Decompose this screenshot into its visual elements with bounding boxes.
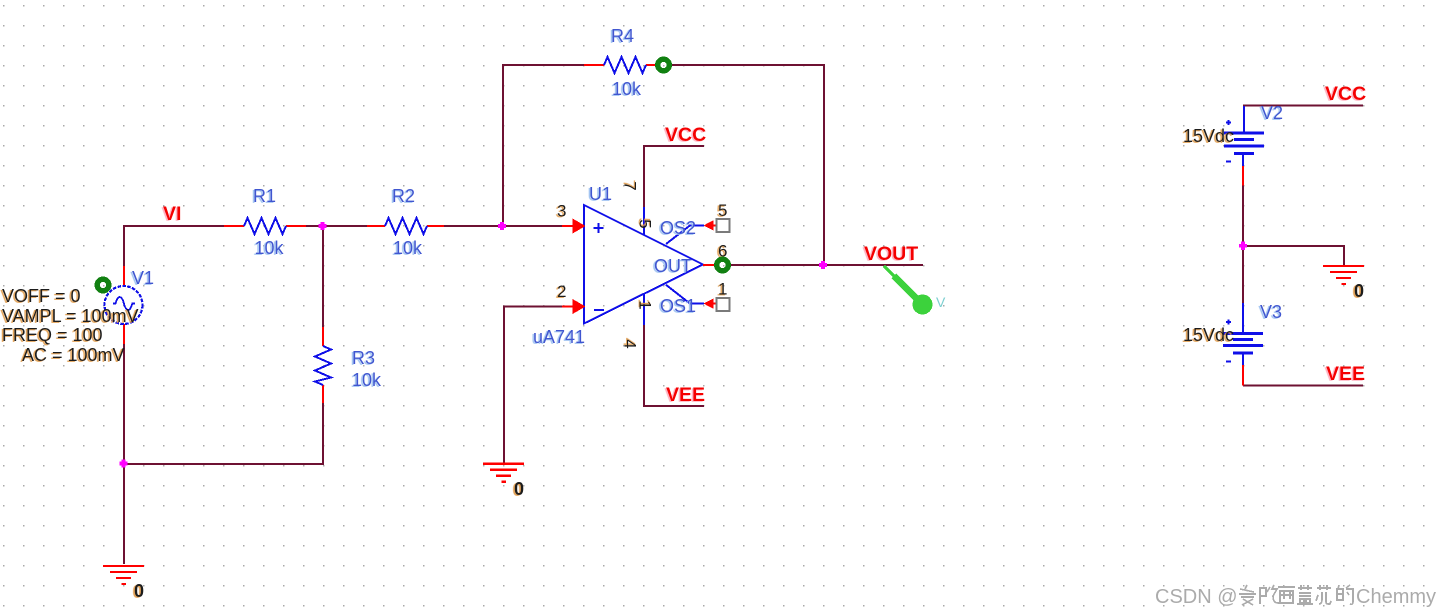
svg-text:7: 7 <box>621 181 640 190</box>
junction node R1/R3 <box>318 222 326 230</box>
resistor R2 <box>367 186 444 258</box>
resistor R3 (vertical) <box>315 327 382 403</box>
svg-text:V: V <box>936 294 946 310</box>
wire opamp pin2 to left corner down to ground <box>504 307 562 465</box>
pin 3 lead with arrow <box>557 202 586 234</box>
svg-text:10k: 10k <box>393 238 423 258</box>
svg-text:0: 0 <box>514 479 524 499</box>
wire feedback: junction2 up and right to R4 <box>503 65 584 226</box>
voltage probe marker at VOUT <box>884 266 946 315</box>
svg-text:U1: U1 <box>589 184 612 204</box>
dc source V2 <box>1183 103 1283 186</box>
wire output net OUT to VOUT end <box>730 264 923 266</box>
ground 0 at V2/V3 midpoint <box>1323 266 1364 301</box>
svg-text:10k: 10k <box>612 79 642 99</box>
svg-text:R4: R4 <box>611 26 634 46</box>
svg-text:OUT: OUT <box>654 256 692 276</box>
svg-text:1: 1 <box>718 280 727 299</box>
svg-text:VI: VI <box>163 203 181 225</box>
svg-text:10k: 10k <box>352 370 382 390</box>
svg-text:VAMPL = 100mV: VAMPL = 100mV <box>2 306 139 326</box>
svg-text:FREQ = 100: FREQ = 100 <box>2 325 103 345</box>
op-amp U1 <box>533 184 704 347</box>
svg-text:AC = 100mV: AC = 100mV <box>22 345 125 365</box>
wire R2 right to opamp pin3 <box>444 225 562 227</box>
wire R1 right to junction to R2 <box>306 225 367 227</box>
svg-text:R3: R3 <box>352 348 375 368</box>
pin OS1 terminal <box>704 280 730 312</box>
ground 0 below opamp pin2 wire <box>483 464 524 499</box>
marker green ring at V1 <box>97 279 109 291</box>
resistor R1 <box>224 186 306 258</box>
wire junction5 right to ground <box>1243 246 1344 266</box>
wire R3 bottom down and left to V1 bottom <box>124 403 323 464</box>
svg-text:15Vdc: 15Vdc <box>1183 325 1234 345</box>
resistor R4 <box>584 26 656 99</box>
svg-text:R2: R2 <box>392 186 415 206</box>
watermark CSDN <box>1155 585 1436 608</box>
marker green ring at OUT pin 6 <box>717 259 729 271</box>
junction node V1/R3 bottom <box>119 459 127 467</box>
svg-text:uA741: uA741 <box>533 327 585 347</box>
V1 value labels <box>2 286 139 365</box>
wire V2 bottom to junction5 <box>1242 186 1244 247</box>
sine source V1 <box>105 266 155 344</box>
svg-text:VEE: VEE <box>1326 363 1365 385</box>
svg-text:VOUT: VOUT <box>864 243 918 265</box>
wire R4 right to corner down to output net <box>672 65 824 265</box>
svg-text:10k: 10k <box>255 238 285 258</box>
svg-text:5: 5 <box>636 219 655 228</box>
svg-text:1: 1 <box>636 300 655 309</box>
junction node feedback/pin3 <box>498 222 506 230</box>
wire VI net: V1 top corner to R1 <box>124 226 224 266</box>
wire junction1 down to R3 top <box>322 226 324 327</box>
wire V1 bottom to ground <box>123 344 125 564</box>
pin OS2 terminal <box>704 201 730 232</box>
svg-text:0: 0 <box>1354 281 1364 301</box>
svg-text:3: 3 <box>557 202 566 221</box>
svg-text:2: 2 <box>557 282 566 301</box>
dc source V3 <box>1183 302 1282 386</box>
pin 2 lead with arrow <box>557 282 586 314</box>
wire VEE at opamp pin4 <box>644 325 704 406</box>
svg-text:5: 5 <box>718 201 727 220</box>
wire VCC at opamp pin7 <box>644 146 704 207</box>
marker green ring at R4 output <box>658 59 670 71</box>
svg-text:VEE: VEE <box>666 384 705 406</box>
svg-text:R1: R1 <box>253 186 276 206</box>
svg-text:V3: V3 <box>1260 302 1282 322</box>
svg-text:VOFF = 0: VOFF = 0 <box>2 286 81 306</box>
svg-text:4: 4 <box>621 339 640 348</box>
wire VCC right from V2 top <box>1244 105 1363 108</box>
svg-text:V1: V1 <box>132 268 154 288</box>
junction node V2/V3 <box>1239 242 1247 250</box>
svg-text:CSDN @: CSDN @ <box>1155 586 1238 608</box>
svg-text:VCC: VCC <box>1325 83 1366 105</box>
svg-text:OS2: OS2 <box>660 218 696 238</box>
svg-text:VCC: VCC <box>665 124 706 146</box>
svg-text:V2: V2 <box>1261 103 1283 123</box>
svg-text:OS1: OS1 <box>660 296 696 316</box>
junction node VOUT/R4 <box>819 261 827 269</box>
svg-text:15Vdc: 15Vdc <box>1183 126 1234 146</box>
wire junction5 down to V3 top <box>1242 246 1244 303</box>
pin 6 OUT lead <box>703 242 727 266</box>
wire VEE right from V3 bottom <box>1243 385 1363 387</box>
svg-text:0: 0 <box>134 581 144 601</box>
svg-text:Chemmy: Chemmy <box>1356 586 1436 608</box>
ground 0 below V1 <box>103 566 144 601</box>
